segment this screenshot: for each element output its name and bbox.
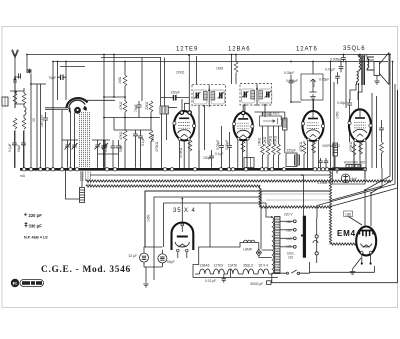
svg-text:50µF: 50µF [167,260,175,264]
antenna [12,50,19,109]
wire vert x66 [65,62,67,101]
wire drop to electrolytic [66,171,80,200]
wire heater wavy 2 [86,185,260,187]
wire horiz y107 [169,107,178,109]
resistor ql6 k2 [352,142,356,168]
wire te9 plate lead [184,55,196,111]
capacitor 180pF [43,112,48,126]
electrolytic 8uF [341,174,350,183]
svg-text:70pF: 70pF [49,76,57,80]
ground rect [143,282,149,288]
resistor 600ohm [267,281,272,285]
tube 12BA6 [233,105,254,168]
svg-text:0.02 µF: 0.02 µF [205,279,216,283]
svg-text:180 300: 180 300 [40,115,44,127]
junction dot te9 [188,54,190,56]
jack box on bus [244,158,254,168]
wire vert x70 [70,111,72,168]
resistor ql6 k [380,142,384,168]
wire vert x164 [164,58,166,107]
svg-text:325µF: 325µF [287,149,296,153]
svg-text:12BA6: 12BA6 [228,47,251,53]
resistor ant 2 [22,93,26,104]
wire vert x104 [103,55,105,169]
svg-text:mA: mA [20,174,26,178]
voltage selector column [313,218,318,263]
IFT1 winding right [211,92,215,101]
svg-text:12TE9: 12TE9 [214,264,224,268]
coil ant lower [24,104,26,117]
IFT2 winding left [251,91,255,100]
wire bottom run [230,269,232,278]
svg-text:FI: FI [13,281,17,286]
capacitor ql6 g [347,99,352,142]
svg-text:1MΩ: 1MΩ [216,67,224,71]
small cap row b [324,158,328,168]
IF transformer 1 box [192,85,226,106]
transformer secondary hatch [275,217,281,274]
svg-text:0.05µF: 0.05µF [216,140,220,150]
capacitor bus c [116,140,121,168]
svg-text:0.1µF: 0.1µF [8,144,12,153]
wire inner-most line [164,203,272,247]
wire x346 [345,62,347,109]
bus terminals [22,168,366,171]
svg-text:180: 180 [286,220,292,224]
box 35X4 outer [145,191,330,247]
wire vert x40 [40,84,42,168]
resistor at6 k [302,141,306,168]
resistor ql6 cathode [359,143,363,154]
electrolytic 30uF [283,119,288,130]
wire selector drop [209,203,211,247]
tube 35X4 [172,223,194,258]
small caps above bus row [318,158,322,168]
wire horiz y97 [104,96,125,98]
capacitor row3 c [138,130,143,168]
electrolytic at6 [333,143,338,168]
resistor at6 cathode [312,142,316,153]
resistor left low 1 [13,118,17,129]
box 8uF [333,168,366,185]
svg-text:470KΩ: 470KΩ [155,141,159,152]
heater filament 4 [243,269,254,274]
tube 12TE9 [173,111,196,168]
wire det drop e [284,130,286,153]
band switch rotor [69,106,87,114]
svg-text:470KΩ: 470KΩ [274,135,278,146]
wavy to EM4 [331,243,357,245]
wire em4 diag [349,217,363,226]
resistor det 4 [277,126,281,168]
mains switch [284,270,300,275]
svg-text:0.005µF: 0.005µF [330,58,342,62]
wire chain bottom [271,90,398,283]
wire at6 top [291,89,314,110]
capacitor pad 2 [72,140,78,168]
wire short segment left [60,66,85,68]
speaker ground [374,76,380,85]
svg-text:2.2MΩ: 2.2MΩ [318,181,328,185]
capacitor 0.01 [339,62,344,73]
svg-text:22KΩ: 22KΩ [145,101,149,110]
capacitor 0.05 b [227,132,232,168]
wire horiz y154 [98,153,119,155]
svg-text:1450: 1450 [147,214,151,222]
capacitor bus b [111,140,116,168]
capacitor far-left b [21,131,26,168]
wire inner box extension [266,199,330,201]
svg-text:30µF: 30µF [280,117,288,121]
lamp diamond [256,249,261,256]
wire speaker return below bus [331,168,383,201]
svg-text:0.05µF: 0.05µF [319,78,329,82]
wire left drops [15,117,24,168]
IFT2 loop right [259,89,272,103]
transformer taps [280,220,296,248]
resistor ant 1 [13,93,17,104]
svg-text:35QL6: 35QL6 [343,46,366,52]
wire right bundle 2 [371,62,393,227]
svg-text:100pF: 100pF [203,156,212,160]
ground em4 [350,258,361,275]
electrolytic can left [80,172,85,203]
legend 330pF [25,222,43,229]
box 35X4 inner [154,191,261,280]
electrolytic 32uF [140,250,149,267]
wire antenna coupling [15,55,27,78]
heater filament 2 [214,269,225,274]
band switch arc shell [67,98,88,109]
ground bus [20,168,367,171]
wire right bundle 1 [365,55,390,227]
wire vert x114 [113,55,115,98]
svg-text:140: 140 [286,237,292,241]
capacitor bus a [101,140,106,168]
svg-text:0.1µF: 0.1µF [215,152,224,156]
wire horiz y84 [31,83,46,85]
svg-text:12AT6: 12AT6 [296,47,318,53]
core junction dot [301,234,303,236]
wire vert x231 [231,55,233,85]
svg-text:10KΩ: 10KΩ [258,137,262,146]
svg-text:1MΩ: 1MΩ [118,76,122,84]
wire osc drops [162,114,167,168]
capacitor 220pF dot-type [13,78,17,85]
publisher logo [11,279,44,287]
wire horiz det y112 [255,112,285,119]
wire ant junction [10,85,24,108]
capacitor pad 4 [102,140,108,168]
electrolytic 50uF [158,250,167,267]
IFT1 winding left [203,92,207,101]
svg-text:2.2KΩ: 2.2KΩ [263,136,267,146]
capacitor 70pF [136,101,141,118]
IFT2 drops [245,105,265,117]
svg-text:47KΩ: 47KΩ [119,101,123,110]
wire top-left loop segment [101,57,161,59]
IFT2 center lead [256,84,258,106]
wire bus right drops [337,168,365,179]
tube 12AT6 [301,100,324,168]
wire te9 g4 lead [181,99,183,111]
wire vert x47 [45,126,47,168]
svg-text:35 X 4: 35 X 4 [173,208,196,214]
svg-text:500KΩ POT.: 500KΩ POT. [262,112,280,116]
capacitor 0.005 [341,55,346,63]
can cap box on bus [286,149,297,167]
wire vert x57 [57,62,59,101]
wire ql6 top [359,55,361,110]
wire vert x53 [52,62,54,169]
electrolytic near bus left [295,155,300,165]
wire bundle cable [80,112,91,186]
wire vert x31 [30,74,32,169]
IFT2 trimmer right [265,91,272,98]
svg-text:470KΩ: 470KΩ [269,135,273,146]
antenna terminal box [2,97,8,106]
svg-text:110: 110 [288,256,293,260]
svg-text:50pF: 50pF [119,144,123,152]
svg-text:470KΩ: 470KΩ [349,141,353,152]
svg-text:220 V: 220 V [284,213,293,217]
capacitor ql6 k [379,120,384,142]
svg-text:330 pF: 330 pF [29,224,43,229]
resistor det 2 [266,126,270,168]
IFT1 center lead [208,85,210,107]
pot 500K box [260,116,282,126]
wire vert x37 [36,84,38,168]
svg-text:220 pF: 220 pF [29,213,43,218]
wavy enclosure drop [259,187,261,207]
svg-text:30: 30 [32,118,36,122]
IFT1 loop left [194,90,208,104]
resistor 1M upper [123,62,127,102]
svg-text:125: 125 [286,244,292,248]
wire top rail B+ [27,54,390,56]
svg-text:150pF: 150pF [171,91,180,95]
transformer core bar [303,216,306,258]
heater shunt bumps [244,240,255,242]
svg-text:0.05µF: 0.05µF [284,71,294,75]
svg-text:ASSORB. 300: ASSORB. 300 [344,161,365,165]
svg-text:22KΩ: 22KΩ [151,133,155,142]
resistor left low 2 [22,118,26,129]
capacitor row3 b [133,130,138,168]
resistor 22K row2 [149,101,153,130]
tube EM4 [356,227,376,265]
wire lamp links [255,243,272,258]
capacitor far-left a [12,131,17,168]
resistor row3 a [123,130,127,168]
wire trasf sec drop [350,84,362,100]
label 1B [344,211,353,217]
band switch shaft [45,108,68,110]
legend 220pF [24,213,42,218]
IFT2 loop left [242,89,255,103]
wire vert x62 [61,110,63,168]
IFT1 loop right [211,90,225,104]
wire inner box right vert [260,197,262,249]
svg-text:0.1µF: 0.1µF [104,144,108,153]
svg-text:160: 160 [286,228,292,232]
svg-text:70pF: 70pF [134,104,138,112]
IF transformer 2 box [240,84,272,106]
wire horiz y140 [62,139,110,141]
capacitor 0.05 a [219,126,224,168]
svg-text:12BA6: 12BA6 [200,264,210,268]
capacitor ant series [19,73,21,78]
svg-text:32 µF: 32 µF [129,254,138,258]
svg-text:0.1µF: 0.1µF [141,138,145,147]
tone pot [310,79,317,100]
svg-text:0.02µF: 0.02µF [337,101,347,105]
resistor det 3 [272,126,276,168]
wire at6 g [312,62,314,75]
wire middle box extension [261,193,330,195]
resistor row3 d [149,130,153,168]
resistor 1M vert [234,55,238,85]
svg-text:50pF: 50pF [17,144,21,152]
wire vert x160 [160,58,162,107]
output transformer [357,55,374,86]
resistor det 1 [261,126,265,168]
wire vert x142 [141,58,143,102]
wire horiz y130 [114,118,151,131]
svg-text:12AT6: 12AT6 [228,264,238,268]
wavy enclosure bottom run [260,206,331,208]
IFT2 trimmer left [242,91,249,98]
IFT1 drops [199,106,205,168]
capacitor 70pF left [58,75,67,81]
wire vert x74 [74,113,76,169]
wire mains [272,262,310,273]
resistor ba6 cathode [241,141,245,152]
svg-text:N.P. 4&B 4 1/2: N.P. 4&B 4 1/2 [24,236,48,240]
capacitor 0.05 r3 [335,72,340,82]
heater filament 1 [200,269,211,274]
heater filament 3 [228,269,239,274]
star mark [27,69,32,74]
svg-text:EM4: EM4 [337,229,356,238]
wire vert x199 low [198,150,200,168]
capacitor 0.02 chain [222,274,226,283]
svg-text:22KΩ: 22KΩ [176,71,185,75]
svg-text:1450: 1450 [336,111,340,119]
capacitor 150pF [161,95,189,101]
svg-text:C.G.E. - Mod. 3546: C.G.E. - Mod. 3546 [41,265,131,275]
IFT2 winding right [259,91,263,100]
wire x330 [331,62,335,169]
capacitor 0.05 at6 [289,75,294,89]
wire em4 bottom [310,266,375,272]
capacitor pad 3 [95,140,101,168]
svg-text:47KΩ: 47KΩ [119,131,123,140]
svg-text:VOL: VOL [312,80,316,87]
oscillator coil [160,106,169,114]
resistor te9 cathode [188,140,192,151]
capacitor pad 1 [65,140,71,168]
wire ql6 right leads [372,93,377,168]
wire core top [303,175,305,216]
svg-text:8µF: 8µF [352,177,358,181]
wire top rail 2 [53,61,388,63]
wire rect filter [144,247,162,250]
resistor 47K row2 [123,101,127,130]
wire 35X4 top lead [181,199,183,225]
wire x341 [338,61,344,85]
wire right bundle 3 [317,84,395,218]
speaker [367,53,390,85]
wire horiz y117 [104,117,160,119]
wavy enclosure vertical from bus [329,171,331,244]
svg-text:12TE9: 12TE9 [176,47,198,53]
wire B minus line [90,174,331,176]
svg-text:LAMP.: LAMP. [243,248,253,252]
wire heater wavy 1 [86,180,391,182]
svg-text:35QL6: 35QL6 [243,264,253,268]
chassis heater outline [193,243,278,278]
wire switch top right [87,99,115,101]
heater filament 5 [258,269,269,274]
wire right bundle 4 [331,90,398,207]
resistor ASSORB [346,165,361,168]
IFT1 trimmer left [194,92,201,99]
svg-text:35 X 4: 35 X 4 [259,264,269,268]
svg-text:600Ω µF: 600Ω µF [251,282,264,286]
svg-text:0.05µF: 0.05µF [225,140,229,150]
transformer primary winding [272,217,274,275]
heater chain links [195,273,272,275]
tone pot box [301,74,323,100]
tube 35QL6 [348,109,372,168]
svg-text:1(B): 1(B) [345,213,351,217]
IFT1 trimmer right [218,92,225,99]
capacitor 100pF bus [209,150,214,168]
